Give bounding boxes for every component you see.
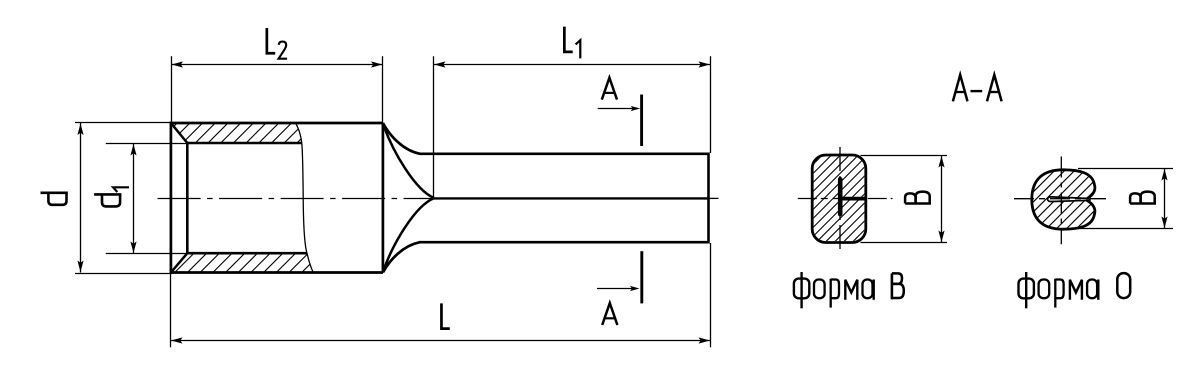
dimension L2 extension left xyxy=(171,56,173,123)
label d1 rotated xyxy=(94,194,121,206)
form V vertical centerline xyxy=(839,147,841,251)
hatching form V section xyxy=(722,151,962,247)
hatching form O section xyxy=(962,166,1159,233)
centerline main view xyxy=(158,198,434,200)
hatching sleeve bottom wall xyxy=(158,249,338,276)
label L1 xyxy=(564,27,572,52)
pin bottom edge xyxy=(419,241,709,244)
section mark A top line xyxy=(640,95,643,147)
dimension L1 line xyxy=(434,64,711,66)
dimension L1 extension right xyxy=(710,56,712,153)
form V B dimension line xyxy=(941,156,943,243)
label L2 xyxy=(267,28,275,53)
dimension d extension top xyxy=(75,122,172,124)
dimension d line xyxy=(80,123,82,273)
funnel outer bottom curve xyxy=(383,242,420,272)
dimension d extension bottom xyxy=(75,273,172,275)
form O slot xyxy=(1048,197,1090,202)
dimension d1 line xyxy=(133,144,135,254)
form V outline xyxy=(812,155,866,243)
section mark A bottom line xyxy=(640,251,643,303)
label d rotated xyxy=(41,193,68,205)
form O B extension bottom xyxy=(1078,228,1173,230)
hatching sleeve top wall xyxy=(140,119,334,148)
dimension L line xyxy=(171,340,711,342)
form O B extension top xyxy=(1078,168,1173,170)
funnel inner cone bottom curve xyxy=(383,198,433,271)
dimension d1 extension bottom xyxy=(106,253,190,255)
dimension L2 line xyxy=(171,64,383,66)
sleeve right edge xyxy=(382,123,385,273)
dimension L2 extension right xyxy=(382,56,384,123)
form O B dimension line xyxy=(1164,169,1166,229)
label L xyxy=(441,303,449,328)
centerline overhang at pin end xyxy=(709,197,719,199)
form O outline xyxy=(1032,170,1095,229)
label forma V xyxy=(794,272,904,308)
pin mid seam line xyxy=(434,197,709,199)
form V label B rotated xyxy=(905,192,931,204)
sleeve bottom edge xyxy=(170,271,383,274)
form O label B rotated xyxy=(1130,192,1156,204)
label forma O xyxy=(1019,272,1131,308)
funnel inner cone top curve xyxy=(383,125,433,198)
dimension d1 extension top xyxy=(106,143,190,145)
label A top xyxy=(602,78,617,100)
bore top edge xyxy=(186,142,301,145)
form V slot bar xyxy=(838,177,843,217)
sleeve top edge xyxy=(170,122,383,125)
form V B extension top xyxy=(861,155,948,157)
pin end edge xyxy=(707,153,710,244)
bore left edge xyxy=(186,142,189,255)
form O vertical centerline xyxy=(1060,157,1062,245)
chamfer top-left xyxy=(171,123,187,143)
funnel outer top curve xyxy=(383,123,420,154)
pin top edge xyxy=(419,152,709,155)
bore depth break curve xyxy=(296,123,314,273)
form V slot arm xyxy=(841,197,866,201)
dimension L extension right xyxy=(710,243,712,347)
chamfer bottom-left xyxy=(171,253,187,272)
form O horizontal centerline xyxy=(1014,198,1108,200)
sleeve left edge xyxy=(170,122,173,274)
label A-A xyxy=(953,75,968,102)
label A bottom xyxy=(602,303,617,325)
form V horizontal centerline xyxy=(798,198,893,200)
bore bottom edge xyxy=(186,252,307,255)
section mark A top arrow xyxy=(598,108,638,110)
section mark A bottom arrow xyxy=(597,288,637,290)
dimension L extension left xyxy=(170,273,172,348)
dimension L1 extension left xyxy=(433,56,435,197)
form V B extension bottom xyxy=(861,242,948,244)
